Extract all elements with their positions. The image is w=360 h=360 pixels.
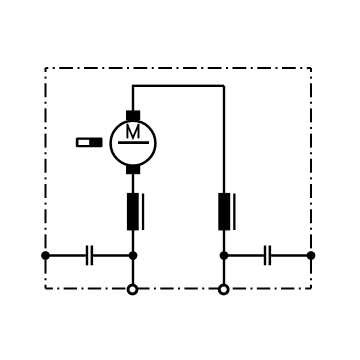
motor M1 top brush terminal (126, 110, 140, 120)
motor M1 bottom brush terminal (126, 165, 140, 174)
wire: motor top stub (132, 86, 134, 112)
choke L2 (right suppression choke) (218, 193, 235, 231)
capacitor C1 (left suppression capacitor) (86, 246, 93, 266)
junction dot: left border node (41, 251, 50, 260)
junction dot: right branch node (220, 251, 229, 260)
wire: right choke to terminal (223, 230, 225, 285)
junction dot: right border node (307, 251, 316, 260)
motor M1 letter "M" (127, 124, 139, 138)
motor M1 DC underline (118, 141, 149, 144)
motor M1 (DC motor) (111, 110, 156, 174)
terminal 2 (right open-circle terminal) (219, 285, 228, 294)
terminal 1 (left open-circle terminal) (128, 285, 137, 294)
wire: right capacitor right lead (271, 254, 311, 256)
enclosure border (dash-dot housing outline) (46, 68, 312, 289)
wire: left capacitor left lead (46, 254, 86, 256)
wire: top horizontal run (132, 85, 224, 87)
wire: right capacitor left lead (224, 254, 264, 256)
wire: right vertical drop to choke (223, 86, 225, 194)
wire: motor bottom to left choke (132, 173, 134, 194)
connector / plug symbol (76, 138, 103, 148)
wire: left capacitor right lead (93, 254, 133, 256)
motor M1 body circle (111, 121, 156, 166)
choke L1 (left suppression choke) (127, 193, 144, 231)
capacitor C2 (right suppression capacitor) (264, 246, 271, 266)
wire: left choke to terminal (132, 230, 134, 285)
junction dot: left branch node (129, 251, 138, 260)
